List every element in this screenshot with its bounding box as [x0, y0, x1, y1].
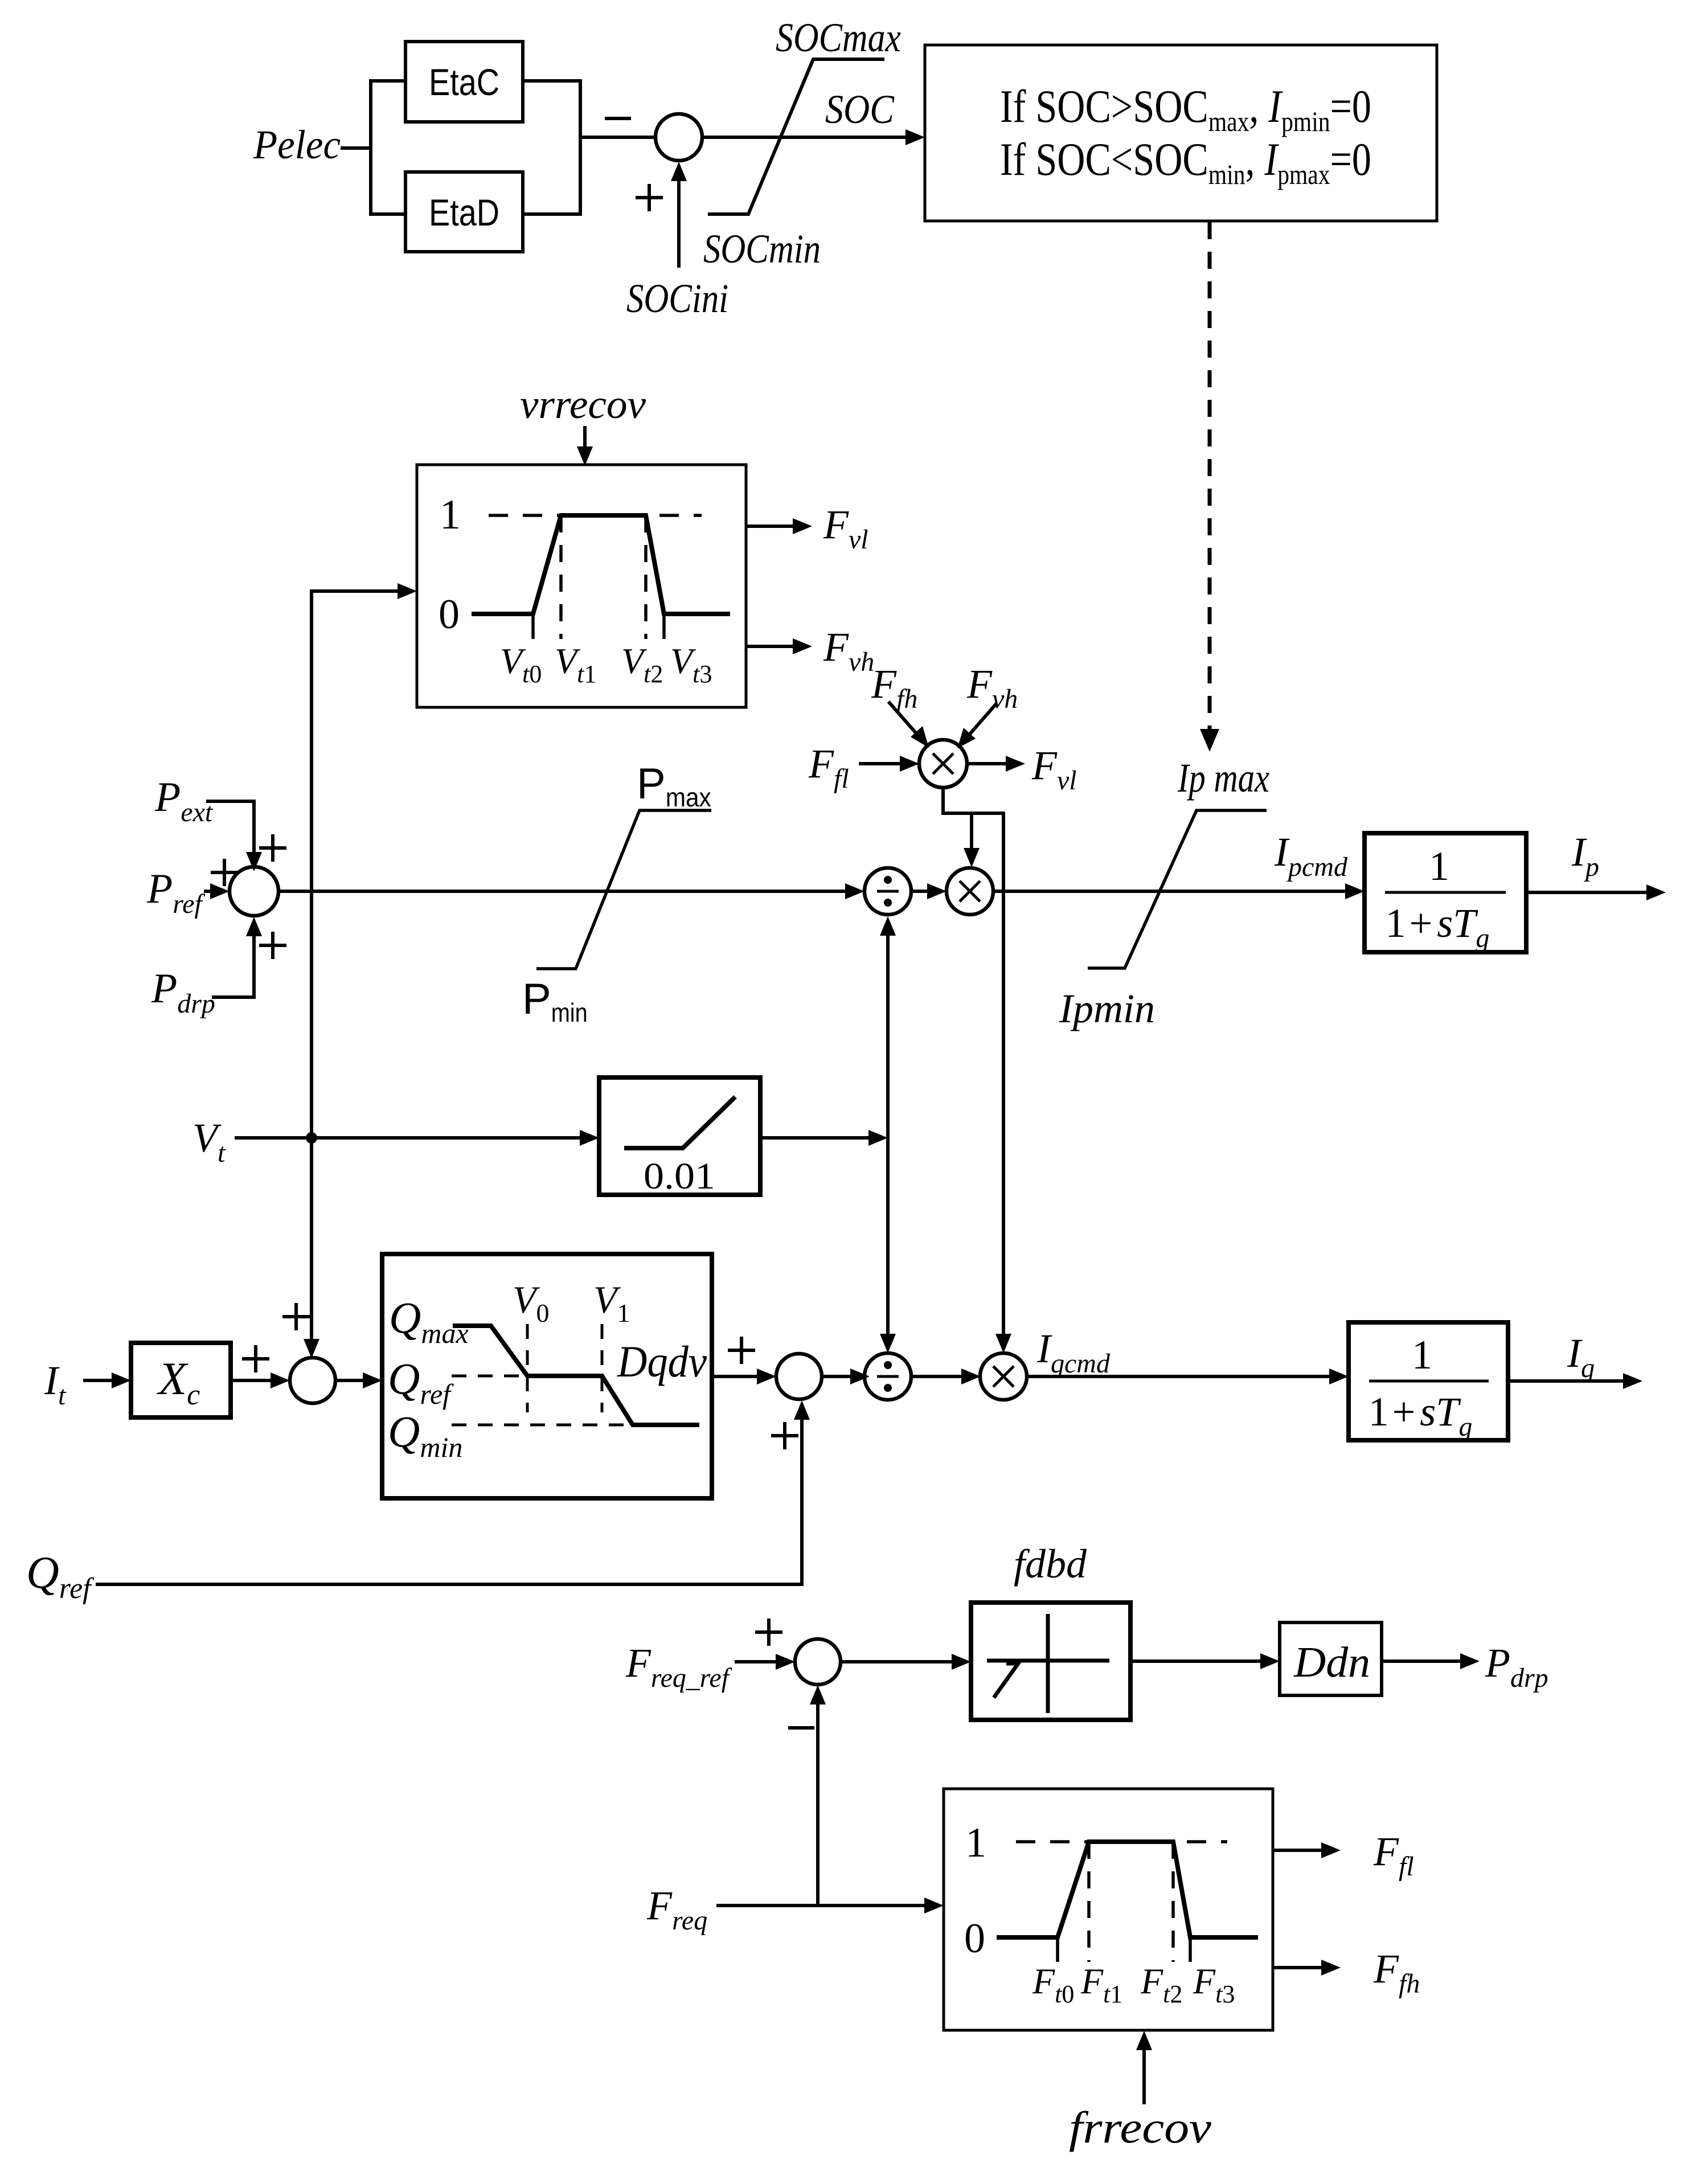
label Iqcmd — [1036, 1326, 1111, 1379]
divider P — [864, 868, 911, 915]
dashed vertical Ft2 — [1171, 1842, 1175, 1962]
wire Dqdv to sum2 — [712, 1368, 776, 1384]
wire Pelec lead — [341, 146, 371, 150]
label 1 (voltage block) — [440, 491, 461, 538]
wire output merge bracket — [523, 81, 580, 214]
summing junction Q1 — [290, 1358, 335, 1403]
multiplier P — [947, 868, 993, 915]
summing junction P — [230, 867, 278, 916]
label Vt3 — [670, 641, 712, 688]
label Qref (input) — [26, 1548, 95, 1605]
dashed level 1 line (frequency block) — [1016, 1840, 1227, 1843]
block Xc — [131, 1343, 231, 1417]
wire Fvl output (multiplier) — [967, 756, 1025, 772]
label Fvl (multiplier) — [1031, 743, 1077, 796]
label Iq — [1567, 1330, 1595, 1383]
dashed vertical V1 — [601, 1324, 604, 1412]
block P lag 1/(1+sTg) — [1365, 833, 1526, 953]
label It — [44, 1358, 67, 1411]
block EtaC — [405, 42, 523, 122]
label SOC — [825, 87, 895, 132]
wire P main line — [278, 883, 864, 899]
label fdbd — [1014, 1541, 1087, 1587]
svg-text:1: 1 — [440, 491, 461, 538]
label frrecov — [1069, 2103, 1211, 2152]
label Fvl — [823, 502, 868, 555]
wire Ffh output — [1273, 1960, 1341, 1976]
svg-text:1: 1 — [965, 1820, 986, 1866]
wire Ffl — [859, 756, 919, 772]
block Q lag 1/(1+sTg) — [1349, 1322, 1508, 1442]
svg-text:Pelec: Pelec — [253, 122, 341, 167]
label Vt1 — [555, 641, 596, 688]
wire Q1 to Dqdv — [335, 1372, 382, 1388]
svg-text:1+sTg: 1+sTg — [1386, 900, 1490, 953]
curve trapezoid (frequency block) — [997, 1842, 1258, 1937]
plus sign SOCini — [636, 184, 663, 211]
dashed Qmin level — [452, 1424, 629, 1427]
label SOCmin — [703, 226, 821, 272]
wire Q div to mult — [911, 1368, 981, 1384]
block frequency trapezoid — [944, 1789, 1273, 2030]
label 1 (frequency block) — [965, 1820, 986, 1866]
label Dqdv — [617, 1337, 707, 1386]
dashed level 1 line (voltage block) — [489, 514, 702, 517]
wire Ip output — [1526, 884, 1666, 900]
wire Pext — [206, 801, 262, 871]
svg-text:1: 1 — [1412, 1332, 1432, 1378]
wire F sum to fdbd — [841, 1654, 971, 1670]
label Pdrp output — [1485, 1640, 1548, 1693]
label Qmin — [388, 1407, 462, 1463]
wire Freq_ref — [735, 1654, 795, 1670]
wire Ffl output — [1273, 1842, 1341, 1858]
label Pdrp — [151, 965, 215, 1019]
label Freq — [646, 1883, 707, 1936]
label Freq_ref — [625, 1640, 732, 1693]
svg-text:SOCmin: SOCmin — [703, 226, 821, 272]
label 0 (frequency block) — [964, 1915, 985, 1962]
summing junction F — [795, 1639, 841, 1685]
label Ft0 — [1032, 1961, 1074, 2008]
svg-text:frrecov: frrecov — [1069, 2103, 1211, 2152]
summing junction SOC — [655, 114, 702, 161]
wire P div to mult — [911, 883, 947, 899]
minus sign — [605, 117, 631, 120]
wire 0.01 output — [760, 1130, 888, 1146]
plus sign Dqdv out — [728, 1337, 755, 1364]
multiplier F — [919, 740, 967, 788]
svg-text:1+sTg: 1+sTg — [1368, 1389, 1473, 1442]
wire Pref — [204, 883, 230, 899]
plus sign Xc — [242, 1345, 269, 1372]
label V1 — [593, 1278, 630, 1327]
wire Q2 to divider — [822, 1368, 870, 1384]
label Qref (in block) — [388, 1354, 454, 1410]
label Vt0 — [500, 641, 542, 688]
block Ddn — [1280, 1622, 1382, 1695]
label Ipmin — [1059, 986, 1155, 1031]
wire F product down to multipliers — [943, 788, 1011, 1353]
wire divider feed vertical — [880, 916, 896, 1353]
svg-text:EtaD: EtaD — [429, 191, 499, 233]
label Pext — [154, 774, 214, 827]
wire Freq feedback — [810, 1685, 826, 1906]
label Ffl — [808, 741, 849, 794]
label Pmax — [637, 760, 711, 812]
svg-text:vrrecov: vrrecov — [520, 382, 646, 427]
tick Ft3 — [1189, 1937, 1192, 1962]
wire Fvh diagonal arrow — [957, 703, 997, 748]
label Ft3 — [1193, 1961, 1235, 2008]
wire branch into P multiplier — [964, 813, 980, 867]
wire input split bracket — [371, 81, 405, 214]
svg-text:SOCmax: SOCmax — [776, 15, 901, 60]
wire Pdrp output — [1382, 1653, 1480, 1669]
divider Q — [864, 1353, 911, 1400]
multiplier Q — [980, 1353, 1027, 1400]
wire fdbd to Ddn — [1130, 1653, 1280, 1669]
wire to SOC summing — [580, 136, 655, 139]
curve trapezoid (voltage block) — [472, 515, 730, 614]
limiter symbol Pmax Pmin — [536, 810, 711, 969]
label Qmax — [389, 1293, 469, 1349]
dashed Qref level — [452, 1375, 524, 1378]
wire Ffh diagonal arrow — [888, 702, 929, 748]
label Ipcmd — [1274, 829, 1348, 882]
svg-text:0.01: 0.01 — [644, 1155, 715, 1197]
label Ft2 — [1140, 1961, 1182, 2008]
plus sign Pdrp — [259, 932, 286, 959]
tick Ft0 — [1056, 1937, 1059, 1962]
junction Vt — [306, 1132, 317, 1144]
plus sign Freq_ref — [755, 1618, 782, 1646]
plus sign Pref — [211, 859, 238, 886]
label Pelec — [253, 122, 341, 167]
wire dashed SOC flag — [1200, 222, 1219, 752]
svg-text:0: 0 — [964, 1915, 985, 1962]
label Ip max — [1177, 755, 1269, 801]
label SOCini — [626, 276, 728, 321]
wire Fvh output — [746, 638, 812, 654]
label vrrecov — [520, 382, 646, 427]
label Fvh (upper) — [966, 661, 1018, 714]
dashed vertical Vt2 — [644, 515, 648, 639]
label Vt — [192, 1115, 226, 1168]
tick Vt0 — [531, 614, 535, 639]
label Vt2 — [621, 641, 663, 688]
dashed vertical V0 — [526, 1324, 529, 1412]
wire SOCini — [671, 162, 687, 268]
svg-text:Ipmin: Ipmin — [1059, 986, 1155, 1031]
wire Qref — [96, 1400, 810, 1584]
label Ip — [1571, 829, 1599, 882]
wire vrrecov into block — [577, 426, 593, 466]
block deadband 0.01 — [599, 1077, 760, 1197]
svg-text:fdbd: fdbd — [1014, 1541, 1087, 1587]
label Pref — [146, 866, 205, 919]
block voltage trapezoid — [417, 465, 746, 707]
label Ffh — [871, 661, 917, 714]
wire Vt line — [235, 1130, 599, 1146]
label Ffl output — [1373, 1829, 1414, 1882]
wire P mult to lag — [993, 883, 1365, 899]
dashed vertical Vt1 — [559, 515, 563, 639]
wire SOC to box — [702, 129, 925, 145]
block EtaD — [405, 172, 523, 252]
wire It — [83, 1372, 131, 1388]
wire Fvl output — [746, 518, 812, 534]
block Dqdv — [382, 1254, 712, 1498]
svg-text:1: 1 — [1429, 843, 1449, 889]
label Ffh output — [1373, 1946, 1420, 1999]
svg-text:SOC: SOC — [825, 87, 895, 132]
label Ft1 — [1080, 1961, 1122, 2008]
wire Pdrp — [212, 917, 262, 997]
wire Iq output — [1508, 1373, 1642, 1389]
limiter symbol SOC — [708, 59, 884, 214]
svg-text:SOCini: SOCini — [626, 276, 728, 321]
wire Xc to sum — [231, 1372, 290, 1388]
wire Q mult to lag — [1027, 1368, 1349, 1384]
svg-text:0: 0 — [439, 591, 460, 638]
summing junction Q2 — [776, 1354, 822, 1399]
plus sign Vt branch — [282, 1303, 310, 1330]
label Fvh — [823, 624, 874, 677]
wire frrecov — [1136, 2031, 1152, 2104]
limiter symbol Ipmax Ipmin — [1088, 810, 1267, 968]
block fdbd deadband — [971, 1603, 1130, 1720]
svg-text:Ip max: Ip max — [1177, 755, 1269, 801]
plus sign Qref in — [771, 1422, 798, 1449]
label V0 — [513, 1278, 550, 1327]
wire Freq — [716, 1898, 944, 1913]
label SOCmax — [776, 15, 901, 60]
curve droop Dqdv — [453, 1326, 699, 1425]
wire Vt branch to voltage block — [304, 583, 417, 1358]
svg-text:Dqdv: Dqdv — [617, 1337, 707, 1386]
label Pmin — [522, 975, 588, 1027]
svg-text:EtaC: EtaC — [429, 61, 499, 103]
tick Vt3 — [662, 614, 666, 639]
minus sign Freq — [788, 1726, 814, 1730]
svg-text:Ddn: Ddn — [1293, 1638, 1370, 1686]
label 0 (voltage block) — [439, 591, 460, 638]
plus sign Pext — [259, 834, 286, 862]
block SOC logic box — [925, 45, 1437, 221]
dashed vertical Ft1 — [1087, 1842, 1091, 1962]
